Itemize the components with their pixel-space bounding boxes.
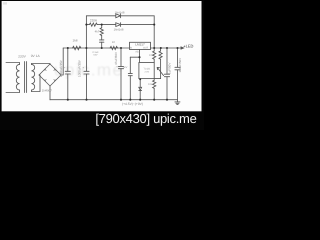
transformer T1 primary winding xyxy=(6,63,20,93)
svg-text:100uF/50V: 100uF/50V xyxy=(178,58,182,73)
resistor R3 xyxy=(89,23,97,26)
svg-text:(+4.5V)~(+9V): (+4.5V)~(+9V) xyxy=(122,102,143,106)
wire rail from IC out to output terminal xyxy=(151,47,182,49)
IC1 LM317 regulator box xyxy=(130,42,151,63)
svg-text:TL431: TL431 xyxy=(143,67,150,70)
wire bridge - output down to ground rail xyxy=(49,86,51,100)
white schematic paper xyxy=(2,1,202,111)
capacitor C6 small xyxy=(100,40,104,48)
wire upper diode line xyxy=(86,16,154,48)
svg-text:1N4007: 1N4007 xyxy=(42,88,53,92)
capacitor C1 electrolytic xyxy=(65,48,70,100)
bridge rectifier BR1 xyxy=(39,64,61,86)
ground symbol xyxy=(175,100,180,105)
resistor R6 xyxy=(153,79,156,100)
shunt regulator U2 box xyxy=(139,63,154,79)
wire bridge + output up to main rail xyxy=(61,48,63,75)
svg-text:OUT: OUT xyxy=(143,47,148,50)
ground rail xyxy=(50,99,178,101)
black frame background xyxy=(0,0,204,130)
diode D3 below U2 xyxy=(139,79,142,100)
svg-text:47uF/50V: 47uF/50V xyxy=(114,52,118,65)
svg-text:10: 10 xyxy=(112,41,115,44)
svg-text:120: 120 xyxy=(149,54,154,57)
resistor R7 xyxy=(159,48,162,79)
capacitor C7 output xyxy=(175,48,180,100)
output arrow xyxy=(181,47,184,49)
svg-text:1000uF/35V: 1000uF/35V xyxy=(78,59,82,77)
main positive rail xyxy=(63,47,129,49)
svg-text:220V: 220V xyxy=(18,55,27,59)
capacitor C3 xyxy=(118,48,123,100)
resistor R4 vertical on lower branch xyxy=(100,25,103,40)
transformer T1 secondary winding xyxy=(32,64,35,92)
junction dots xyxy=(67,24,179,101)
svg-text:1N4148: 1N4148 xyxy=(114,27,124,31)
capacitor C4 on adj branch xyxy=(128,57,132,99)
svg-text:50V: 50V xyxy=(123,66,128,69)
transformer T1 core xyxy=(25,62,27,93)
capacitor C5 xyxy=(164,48,169,100)
resistor R2 on rail before IC xyxy=(110,46,118,49)
faint central upic.me ghost watermark xyxy=(0,0,1,1)
trimmer VR1 wiper arrow xyxy=(154,67,163,78)
wire lower branch with R3 xyxy=(86,24,89,26)
svg-text:[790x430] upic.me: [790x430] upic.me xyxy=(95,111,196,126)
wire secondary bottom to bridge left corner xyxy=(32,75,41,92)
capacitor C2 electrolytic xyxy=(84,48,89,100)
svg-text:63V: 63V xyxy=(94,53,98,56)
diode D1 xyxy=(116,14,121,18)
svg-text:+LED: +LED xyxy=(183,44,193,49)
svg-text:upic.me: upic.me xyxy=(54,61,123,80)
wire adj branch left xyxy=(130,56,139,58)
wire lower diode line xyxy=(97,24,154,26)
svg-text:IN: IN xyxy=(130,47,133,50)
resistor R1 on rail xyxy=(73,46,81,49)
svg-text:9V 1A: 9V 1A xyxy=(31,54,41,58)
svg-text:1000uF/35V: 1000uF/35V xyxy=(59,59,63,77)
svg-text:4k7: 4k7 xyxy=(95,30,100,34)
svg-text:1k8: 1k8 xyxy=(73,38,78,42)
resistor R5 xyxy=(153,48,156,63)
wire secondary top to bridge xyxy=(32,64,51,65)
svg-text:LM317: LM317 xyxy=(135,43,145,47)
diode D2 xyxy=(116,23,121,27)
svg-text:1N4148: 1N4148 xyxy=(115,10,125,14)
svg-text:220R: 220R xyxy=(90,19,98,23)
svg-text:1uF/50V: 1uF/50V xyxy=(168,63,172,74)
svg-text:ADJ: ADJ xyxy=(135,51,139,54)
corner scan smudge xyxy=(3,2,7,4)
svg-text:2.5V: 2.5V xyxy=(145,70,150,73)
wire rail up to top diode branch xyxy=(85,16,87,48)
